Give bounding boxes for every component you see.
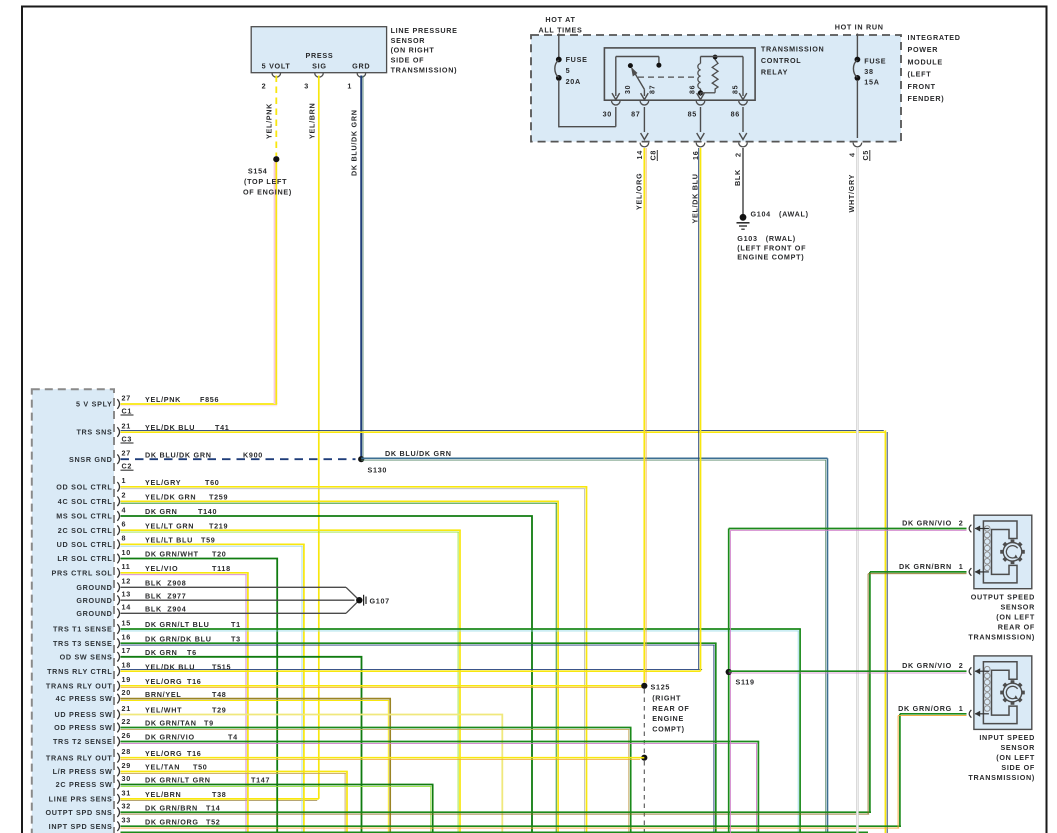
svg-text:30: 30 [625,85,632,94]
svg-text:2C SOL CTRL: 2C SOL CTRL [58,526,113,535]
svg-text:15A: 15A [864,78,879,87]
svg-text:LR SOL CTRL: LR SOL CTRL [57,554,112,563]
svg-text:DK GRN: DK GRN [145,648,178,657]
svg-text:87: 87 [650,85,657,94]
svg-text:C8: C8 [648,150,657,161]
svg-text:C2: C2 [122,462,133,471]
svg-text:DK GRN/TAN: DK GRN/TAN [145,719,197,728]
svg-text:8: 8 [122,534,127,543]
svg-text:SENSOR: SENSOR [1000,743,1035,752]
svg-text:SIDE OF: SIDE OF [391,56,425,65]
svg-text:33: 33 [122,816,131,825]
svg-text:OUTPUT SPEED: OUTPUT SPEED [971,593,1035,602]
svg-text:TRS T3 SENSE: TRS T3 SENSE [53,639,113,648]
svg-text:BRN/YEL: BRN/YEL [145,690,181,699]
svg-text:(ON LEFT: (ON LEFT [996,753,1035,762]
svg-text:T52: T52 [206,817,221,826]
svg-text:DK BLU/DK GRN: DK BLU/DK GRN [350,109,359,176]
svg-text:DK GRN/VIO: DK GRN/VIO [902,661,952,670]
svg-text:2: 2 [733,152,742,157]
svg-text:38: 38 [864,67,873,76]
svg-text:G107: G107 [370,596,390,605]
svg-text:10: 10 [122,548,131,557]
svg-text:85: 85 [733,85,740,94]
svg-text:T60: T60 [205,478,220,487]
svg-text:DK GRN/LT GRN: DK GRN/LT GRN [145,776,211,785]
svg-text:YEL/ORG: YEL/ORG [145,677,182,686]
svg-text:ENGINE COMPT): ENGINE COMPT) [737,253,804,262]
svg-text:SIDE OF: SIDE OF [1001,763,1035,772]
svg-text:29: 29 [122,761,131,770]
svg-text:FENDER): FENDER) [908,94,945,103]
svg-text:DK BLU/DK GRN: DK BLU/DK GRN [145,450,212,459]
svg-text:T1: T1 [231,620,241,629]
svg-text:2: 2 [262,82,267,91]
svg-text:22: 22 [122,717,131,726]
svg-text:TRS T2 SENSE: TRS T2 SENSE [53,737,113,746]
svg-text:S119: S119 [736,678,755,687]
svg-text:YEL/GRY: YEL/GRY [145,478,181,487]
svg-text:SENSOR: SENSOR [391,36,426,45]
svg-text:INTEGRATED: INTEGRATED [908,33,961,42]
svg-text:26: 26 [122,731,131,740]
svg-text:T59: T59 [201,536,216,545]
svg-text:OUTPT SPD SNS: OUTPT SPD SNS [45,808,112,817]
svg-text:TRANSMISSION: TRANSMISSION [761,45,825,54]
svg-text:PRS CTRL SOL: PRS CTRL SOL [52,568,113,577]
svg-text:15: 15 [122,618,131,627]
svg-text:BLK: BLK [733,169,742,186]
svg-text:T50: T50 [193,763,208,772]
svg-text:T140: T140 [198,507,217,516]
svg-text:T147: T147 [251,776,270,785]
svg-text:FRONT: FRONT [908,82,936,91]
svg-text:YEL/TAN: YEL/TAN [145,763,180,772]
svg-text:28: 28 [122,747,131,756]
svg-text:4C SOL CTRL: 4C SOL CTRL [58,497,113,506]
svg-text:20: 20 [122,688,131,697]
svg-text:YEL/DK BLU: YEL/DK BLU [691,173,700,223]
svg-text:MODULE: MODULE [908,57,943,66]
svg-text:G104 (AWAL): G104 (AWAL) [751,209,809,218]
svg-text:YEL/ORG: YEL/ORG [145,749,182,758]
svg-text:13: 13 [122,590,131,599]
svg-text:GROUND: GROUND [76,583,112,592]
svg-text:YEL/VIO: YEL/VIO [145,564,178,573]
svg-text:DK GRN: DK GRN [145,507,178,516]
svg-text:4: 4 [848,152,857,157]
svg-text:C1: C1 [122,406,133,415]
svg-text:DK BLU/DK GRN: DK BLU/DK GRN [385,449,452,458]
svg-text:SIG: SIG [312,62,326,71]
svg-text:FUSE: FUSE [864,57,886,66]
svg-text:DK GRN/BRN: DK GRN/BRN [899,562,952,571]
svg-text:YEL/BRN: YEL/BRN [308,103,317,139]
svg-text:21: 21 [122,704,131,713]
svg-text:T20: T20 [212,550,227,559]
svg-text:DK GRN/DK BLU: DK GRN/DK BLU [145,634,212,643]
svg-text:11: 11 [122,562,131,571]
svg-text:2: 2 [959,518,964,527]
svg-text:12: 12 [122,577,131,586]
svg-text:YEL/DK GRN: YEL/DK GRN [145,493,196,502]
svg-text:YEL/LT BLU: YEL/LT BLU [145,536,193,545]
svg-text:YEL/BRN: YEL/BRN [145,790,181,799]
svg-text:ALL TIMES: ALL TIMES [538,26,582,35]
svg-text:TRANS RLY OUT: TRANS RLY OUT [46,681,113,690]
svg-text:3: 3 [304,82,309,91]
svg-text:14: 14 [635,150,644,159]
svg-text:DK GRN/BRN: DK GRN/BRN [145,803,198,812]
svg-text:SNSR GND: SNSR GND [69,455,113,464]
svg-text:(TOP LEFT: (TOP LEFT [244,177,287,186]
svg-text:REAR OF: REAR OF [998,623,1035,632]
svg-text:YEL/DK BLU: YEL/DK BLU [145,423,195,432]
svg-text:COMPT): COMPT) [652,724,685,733]
svg-text:1: 1 [122,476,127,485]
svg-text:GROUND: GROUND [76,609,112,618]
svg-text:1: 1 [959,704,964,713]
svg-text:27: 27 [122,449,131,458]
svg-text:C5: C5 [861,150,870,161]
svg-text:21: 21 [122,421,131,430]
svg-text:30: 30 [603,110,612,119]
svg-text:MS SOL CTRL: MS SOL CTRL [56,512,112,521]
svg-text:DK GRN/WHT: DK GRN/WHT [145,550,199,559]
svg-text:T16: T16 [187,677,202,686]
svg-text:YEL/WHT: YEL/WHT [145,706,182,715]
svg-text:19: 19 [122,675,131,684]
svg-text:2C PRESS SW: 2C PRESS SW [56,780,113,789]
svg-text:TRANS RLY OUT: TRANS RLY OUT [46,753,113,762]
svg-text:S154: S154 [248,167,268,176]
svg-text:TRANSMISSION): TRANSMISSION) [391,65,458,74]
svg-text:T38: T38 [212,790,227,799]
svg-text:85: 85 [688,110,697,119]
svg-text:BLK Z904: BLK Z904 [145,605,186,614]
svg-text:LINE PRS SENS: LINE PRS SENS [49,795,113,804]
svg-text:HOT AT: HOT AT [545,15,575,24]
svg-text:(LEFT FRONT OF: (LEFT FRONT OF [737,243,806,252]
svg-text:YEL/LT GRN: YEL/LT GRN [145,521,194,530]
svg-text:(ON LEFT: (ON LEFT [996,613,1035,622]
svg-text:T29: T29 [212,706,227,715]
svg-text:TRS SNS: TRS SNS [76,428,112,437]
svg-text:T16: T16 [187,749,202,758]
svg-text:86: 86 [731,110,740,119]
svg-text:2: 2 [122,491,127,500]
svg-text:DK GRN/VIO: DK GRN/VIO [145,733,195,742]
svg-text:GROUND: GROUND [76,596,112,605]
svg-text:OD SW SENS: OD SW SENS [60,652,113,661]
svg-text:32: 32 [122,802,131,811]
svg-text:1: 1 [959,562,964,571]
svg-text:T118: T118 [212,564,231,573]
svg-text:OD SOL CTRL: OD SOL CTRL [56,482,112,491]
svg-text:OD PRESS SW: OD PRESS SW [54,723,112,732]
svg-text:YEL/ORG: YEL/ORG [635,173,644,210]
svg-text:(ON RIGHT: (ON RIGHT [391,46,435,55]
svg-text:FUSE: FUSE [566,55,588,64]
svg-text:YEL/DK BLU: YEL/DK BLU [145,662,195,671]
svg-text:6: 6 [122,520,127,529]
svg-text:31: 31 [122,788,131,797]
svg-text:18: 18 [122,661,131,670]
svg-text:INPT SPD SENS: INPT SPD SENS [49,822,113,831]
svg-text:LINE PRESSURE: LINE PRESSURE [391,26,458,35]
svg-text:5 VOLT: 5 VOLT [262,62,291,71]
svg-text:5: 5 [566,66,571,75]
svg-text:REAR OF: REAR OF [652,704,689,713]
svg-text:DK GRN/ORG: DK GRN/ORG [898,704,952,713]
svg-text:T9: T9 [204,719,214,728]
svg-text:PRESS: PRESS [305,51,333,60]
svg-text:DK GRN/ORG: DK GRN/ORG [145,817,199,826]
svg-text:DK GRN/LT BLU: DK GRN/LT BLU [145,620,209,629]
svg-text:TRNS RLY CTRL: TRNS RLY CTRL [47,667,112,676]
svg-text:87: 87 [631,110,640,119]
svg-text:17: 17 [122,646,131,655]
svg-text:S130: S130 [368,466,388,475]
svg-text:30: 30 [122,774,131,783]
svg-text:K900: K900 [243,450,263,459]
svg-text:F856: F856 [200,395,219,404]
svg-text:TRANSMISSION): TRANSMISSION) [968,633,1035,642]
svg-text:T48: T48 [212,690,227,699]
svg-text:(RIGHT: (RIGHT [652,694,681,703]
svg-text:SENSOR: SENSOR [1000,603,1035,612]
svg-text:BLK Z977: BLK Z977 [145,591,186,600]
svg-text:T4: T4 [228,733,238,742]
svg-text:UD PRESS SW: UD PRESS SW [54,710,112,719]
svg-text:POWER: POWER [908,45,939,54]
svg-text:BLK Z908: BLK Z908 [145,579,186,588]
svg-text:OF ENGINE): OF ENGINE) [243,188,292,197]
svg-text:C3: C3 [122,434,133,443]
svg-text:YEL/PNK: YEL/PNK [145,395,181,404]
svg-text:T259: T259 [209,493,228,502]
svg-text:UD SOL CTRL: UD SOL CTRL [57,540,113,549]
svg-text:G103 (RWAL): G103 (RWAL) [737,234,796,243]
svg-text:4C PRESS SW: 4C PRESS SW [56,694,113,703]
svg-text:2: 2 [959,661,964,670]
svg-text:INPUT SPEED: INPUT SPEED [979,733,1035,742]
svg-text:T515: T515 [212,662,231,671]
svg-text:5 V SPLY: 5 V SPLY [76,400,113,409]
svg-text:4: 4 [122,505,127,514]
svg-text:GRD: GRD [352,62,370,71]
svg-text:T3: T3 [231,634,241,643]
svg-text:(LEFT: (LEFT [908,70,932,79]
svg-text:T6: T6 [187,648,197,657]
svg-text:T14: T14 [206,803,221,812]
svg-text:RELAY: RELAY [761,68,788,77]
svg-text:CONTROL: CONTROL [761,56,801,65]
svg-text:WHT/GRY: WHT/GRY [847,174,856,213]
svg-text:YEL/PNK: YEL/PNK [265,103,274,139]
svg-text:HOT IN RUN: HOT IN RUN [835,23,884,32]
svg-text:16: 16 [122,633,131,642]
svg-text:TRS T1 SENSE: TRS T1 SENSE [53,625,113,634]
svg-text:S125: S125 [651,683,671,692]
svg-text:T219: T219 [209,521,228,530]
svg-text:20A: 20A [566,77,581,86]
svg-text:27: 27 [122,393,131,402]
svg-text:14: 14 [122,603,131,612]
svg-text:L/R PRESS SW: L/R PRESS SW [53,767,113,776]
svg-text:DK GRN/VIO: DK GRN/VIO [902,518,952,527]
svg-text:TRANSMISSION): TRANSMISSION) [968,773,1035,782]
svg-text:1: 1 [347,82,352,91]
svg-text:86: 86 [690,85,697,94]
svg-text:ENGINE: ENGINE [652,714,684,723]
svg-text:T41: T41 [215,423,230,432]
